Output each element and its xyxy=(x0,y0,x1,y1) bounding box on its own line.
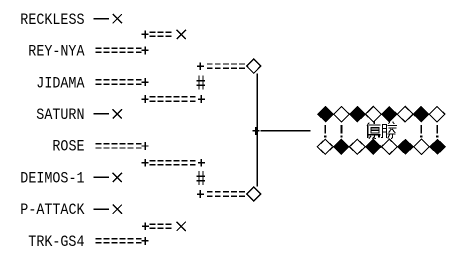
svg-text:RECKLESS: RECKLESS xyxy=(20,11,84,29)
node white diamond SF1 xyxy=(247,59,261,73)
banner top diamond row xyxy=(318,106,445,122)
svg-text:TRK-GS4: TRK-GS4 xyxy=(28,233,84,251)
banner bottom diamond row xyxy=(317,139,445,154)
eliminated mark X P-ATTACK xyxy=(113,205,122,214)
wire loser dash P-ATTACK xyxy=(93,208,108,210)
eliminated mark X DEIMOS-1 xyxy=(113,173,122,182)
node corner plus QF1 xyxy=(142,31,149,39)
svg-text:DEIMOS-1: DEIMOS-1 xyxy=(20,169,84,187)
hash mark QF3 xyxy=(196,171,204,185)
svg-text:JIDAMA: JIDAMA xyxy=(36,74,85,92)
wire equals QF4 xyxy=(150,223,172,229)
wire equals SF2 xyxy=(207,191,245,197)
node corner plus SF2 xyxy=(197,190,204,198)
banner exclamation marks xyxy=(324,125,438,138)
wire equals QF1 xyxy=(150,31,172,37)
node corner plus QF4 xyxy=(142,222,149,230)
wire loser dash RECKLESS xyxy=(93,18,108,20)
kanji YUU (excellence) xyxy=(367,122,381,139)
wire loser dash SATURN xyxy=(93,113,108,115)
wire winner equals ROSE xyxy=(96,142,149,150)
player RECKLESS label xyxy=(20,11,84,29)
eliminated mark X QF1 xyxy=(177,30,186,39)
wire loser dash DEIMOS-1 xyxy=(93,177,108,179)
node final plus junction xyxy=(252,127,259,135)
player SATURN label xyxy=(36,106,84,124)
hash mark QF2 xyxy=(196,76,204,90)
svg-text:P-ATTACK: P-ATTACK xyxy=(20,201,85,219)
node white diamond SF2 xyxy=(247,187,261,201)
wire final dash to banner xyxy=(260,130,310,131)
eliminated mark X QF4 xyxy=(177,222,186,231)
svg-text:ROSE: ROSE xyxy=(52,138,84,156)
wire bracket QF2 join xyxy=(142,95,205,103)
player JIDAMA label xyxy=(36,74,85,92)
svg-text:REY-NYA: REY-NYA xyxy=(28,43,85,61)
player ROSE label xyxy=(52,138,84,156)
wire winner equals TRK-GS4 xyxy=(96,237,149,245)
player P-ATTACK label xyxy=(20,201,85,219)
player DEIMOS-1 label xyxy=(20,169,84,187)
eliminated mark X SATURN xyxy=(113,109,122,118)
svg-text:SATURN: SATURN xyxy=(36,106,84,124)
wire bracket QF3 join xyxy=(142,159,205,167)
player TRK-GS4 label xyxy=(28,233,84,251)
eliminated mark X RECKLESS xyxy=(113,14,122,23)
wire final vertical xyxy=(256,74,257,187)
wire winner equals JIDAMA xyxy=(96,78,149,86)
wire winner equals REY-NYA xyxy=(96,47,149,55)
kanji SHOU (victory) xyxy=(381,122,397,139)
wire equals SF1 xyxy=(207,63,245,69)
node corner plus SF1 xyxy=(197,62,204,70)
player REY-NYA label xyxy=(28,43,85,61)
